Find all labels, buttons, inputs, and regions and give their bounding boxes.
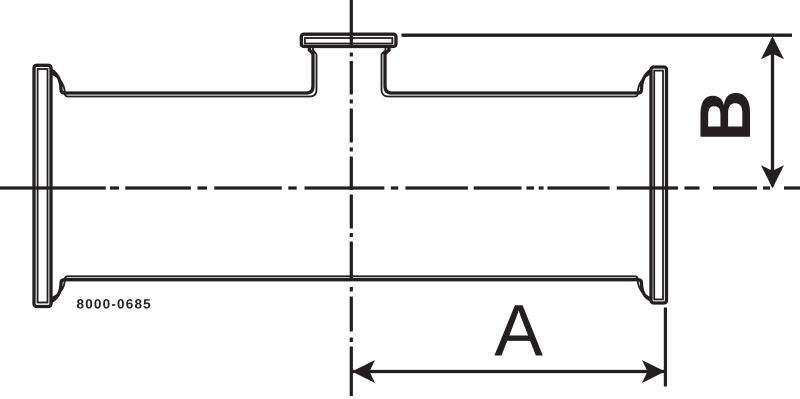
svg-text:A: A xyxy=(494,291,543,372)
dimension A right extension line xyxy=(664,308,667,387)
body inner line bottom xyxy=(52,276,651,298)
svg-text:B: B xyxy=(686,90,766,142)
left ferrule flange outer xyxy=(34,65,51,306)
dimension A arrowhead right xyxy=(642,360,665,383)
right ferrule flange inner xyxy=(654,71,663,300)
right ferrule flange outer xyxy=(651,67,667,303)
branch ferrule cap outer xyxy=(301,34,396,46)
dimension B line xyxy=(771,39,774,187)
body outer outline top-right xyxy=(385,46,652,93)
body inner line top-right xyxy=(382,46,651,96)
dimension B arrowhead up xyxy=(761,36,784,59)
left ferrule flange inner xyxy=(38,69,48,303)
body outer outline bottom xyxy=(51,280,653,302)
body outer outline top-left xyxy=(51,46,314,93)
horizontal centerline xyxy=(0,186,800,189)
dimension B extension line top xyxy=(402,34,793,37)
vertical centerline xyxy=(350,0,353,396)
branch ferrule cap inner xyxy=(305,38,393,44)
body inner line top-left xyxy=(52,46,317,96)
dimension A arrowhead left xyxy=(352,360,375,383)
svg-text:8000-0685: 8000-0685 xyxy=(77,297,152,312)
dimension A line xyxy=(353,370,665,373)
dimension B arrowhead down xyxy=(761,165,784,188)
